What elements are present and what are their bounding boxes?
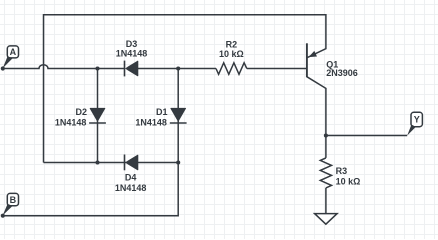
svg-text:A: A [10, 47, 17, 57]
svg-text:10 kΩ: 10 kΩ [219, 49, 244, 59]
svg-text:2N3906: 2N3906 [326, 68, 358, 78]
svg-text:D1: D1 [156, 107, 168, 117]
svg-text:1N4148: 1N4148 [55, 117, 87, 127]
svg-text:1N4148: 1N4148 [115, 183, 147, 193]
svg-text:D4: D4 [125, 173, 137, 183]
svg-text:Y: Y [414, 115, 420, 125]
svg-text:R3: R3 [336, 166, 348, 176]
svg-text:D3: D3 [126, 39, 138, 49]
svg-text:1N4148: 1N4148 [135, 117, 167, 127]
svg-text:1N4148: 1N4148 [116, 49, 148, 59]
svg-text:D2: D2 [75, 107, 87, 117]
svg-text:B: B [10, 195, 17, 205]
svg-text:10 kΩ: 10 kΩ [336, 176, 361, 186]
svg-text:R2: R2 [226, 39, 238, 49]
